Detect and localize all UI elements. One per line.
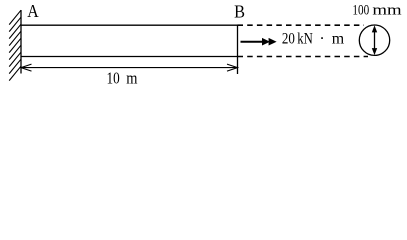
wall line at A — [20, 10, 22, 74]
svg-text:10: 10 — [107, 69, 120, 88]
torque arrow (double-headed) — [241, 38, 277, 46]
dashed extension top — [238, 24, 365, 26]
svg-text:20: 20 — [282, 31, 295, 48]
svg-text:B: B — [234, 1, 245, 21]
svg-text:m: m — [126, 69, 137, 88]
dashed extension bottom — [238, 56, 369, 58]
svg-text:·: · — [319, 31, 324, 48]
diameter arrow inside circle — [372, 25, 377, 55]
beam end line at B — [237, 25, 239, 74]
svg-text:m: m — [332, 31, 345, 48]
wall hatching at A — [9, 10, 21, 80]
svg-text:mm: mm — [372, 3, 402, 19]
beam bottom edge — [21, 56, 238, 58]
svg-text:kN: kN — [297, 31, 313, 48]
svg-text:A: A — [27, 1, 38, 21]
svg-text:100: 100 — [352, 3, 369, 19]
dimension line 10 m — [21, 64, 238, 71]
cross-section circle — [359, 25, 389, 55]
beam top edge — [21, 24, 238, 26]
